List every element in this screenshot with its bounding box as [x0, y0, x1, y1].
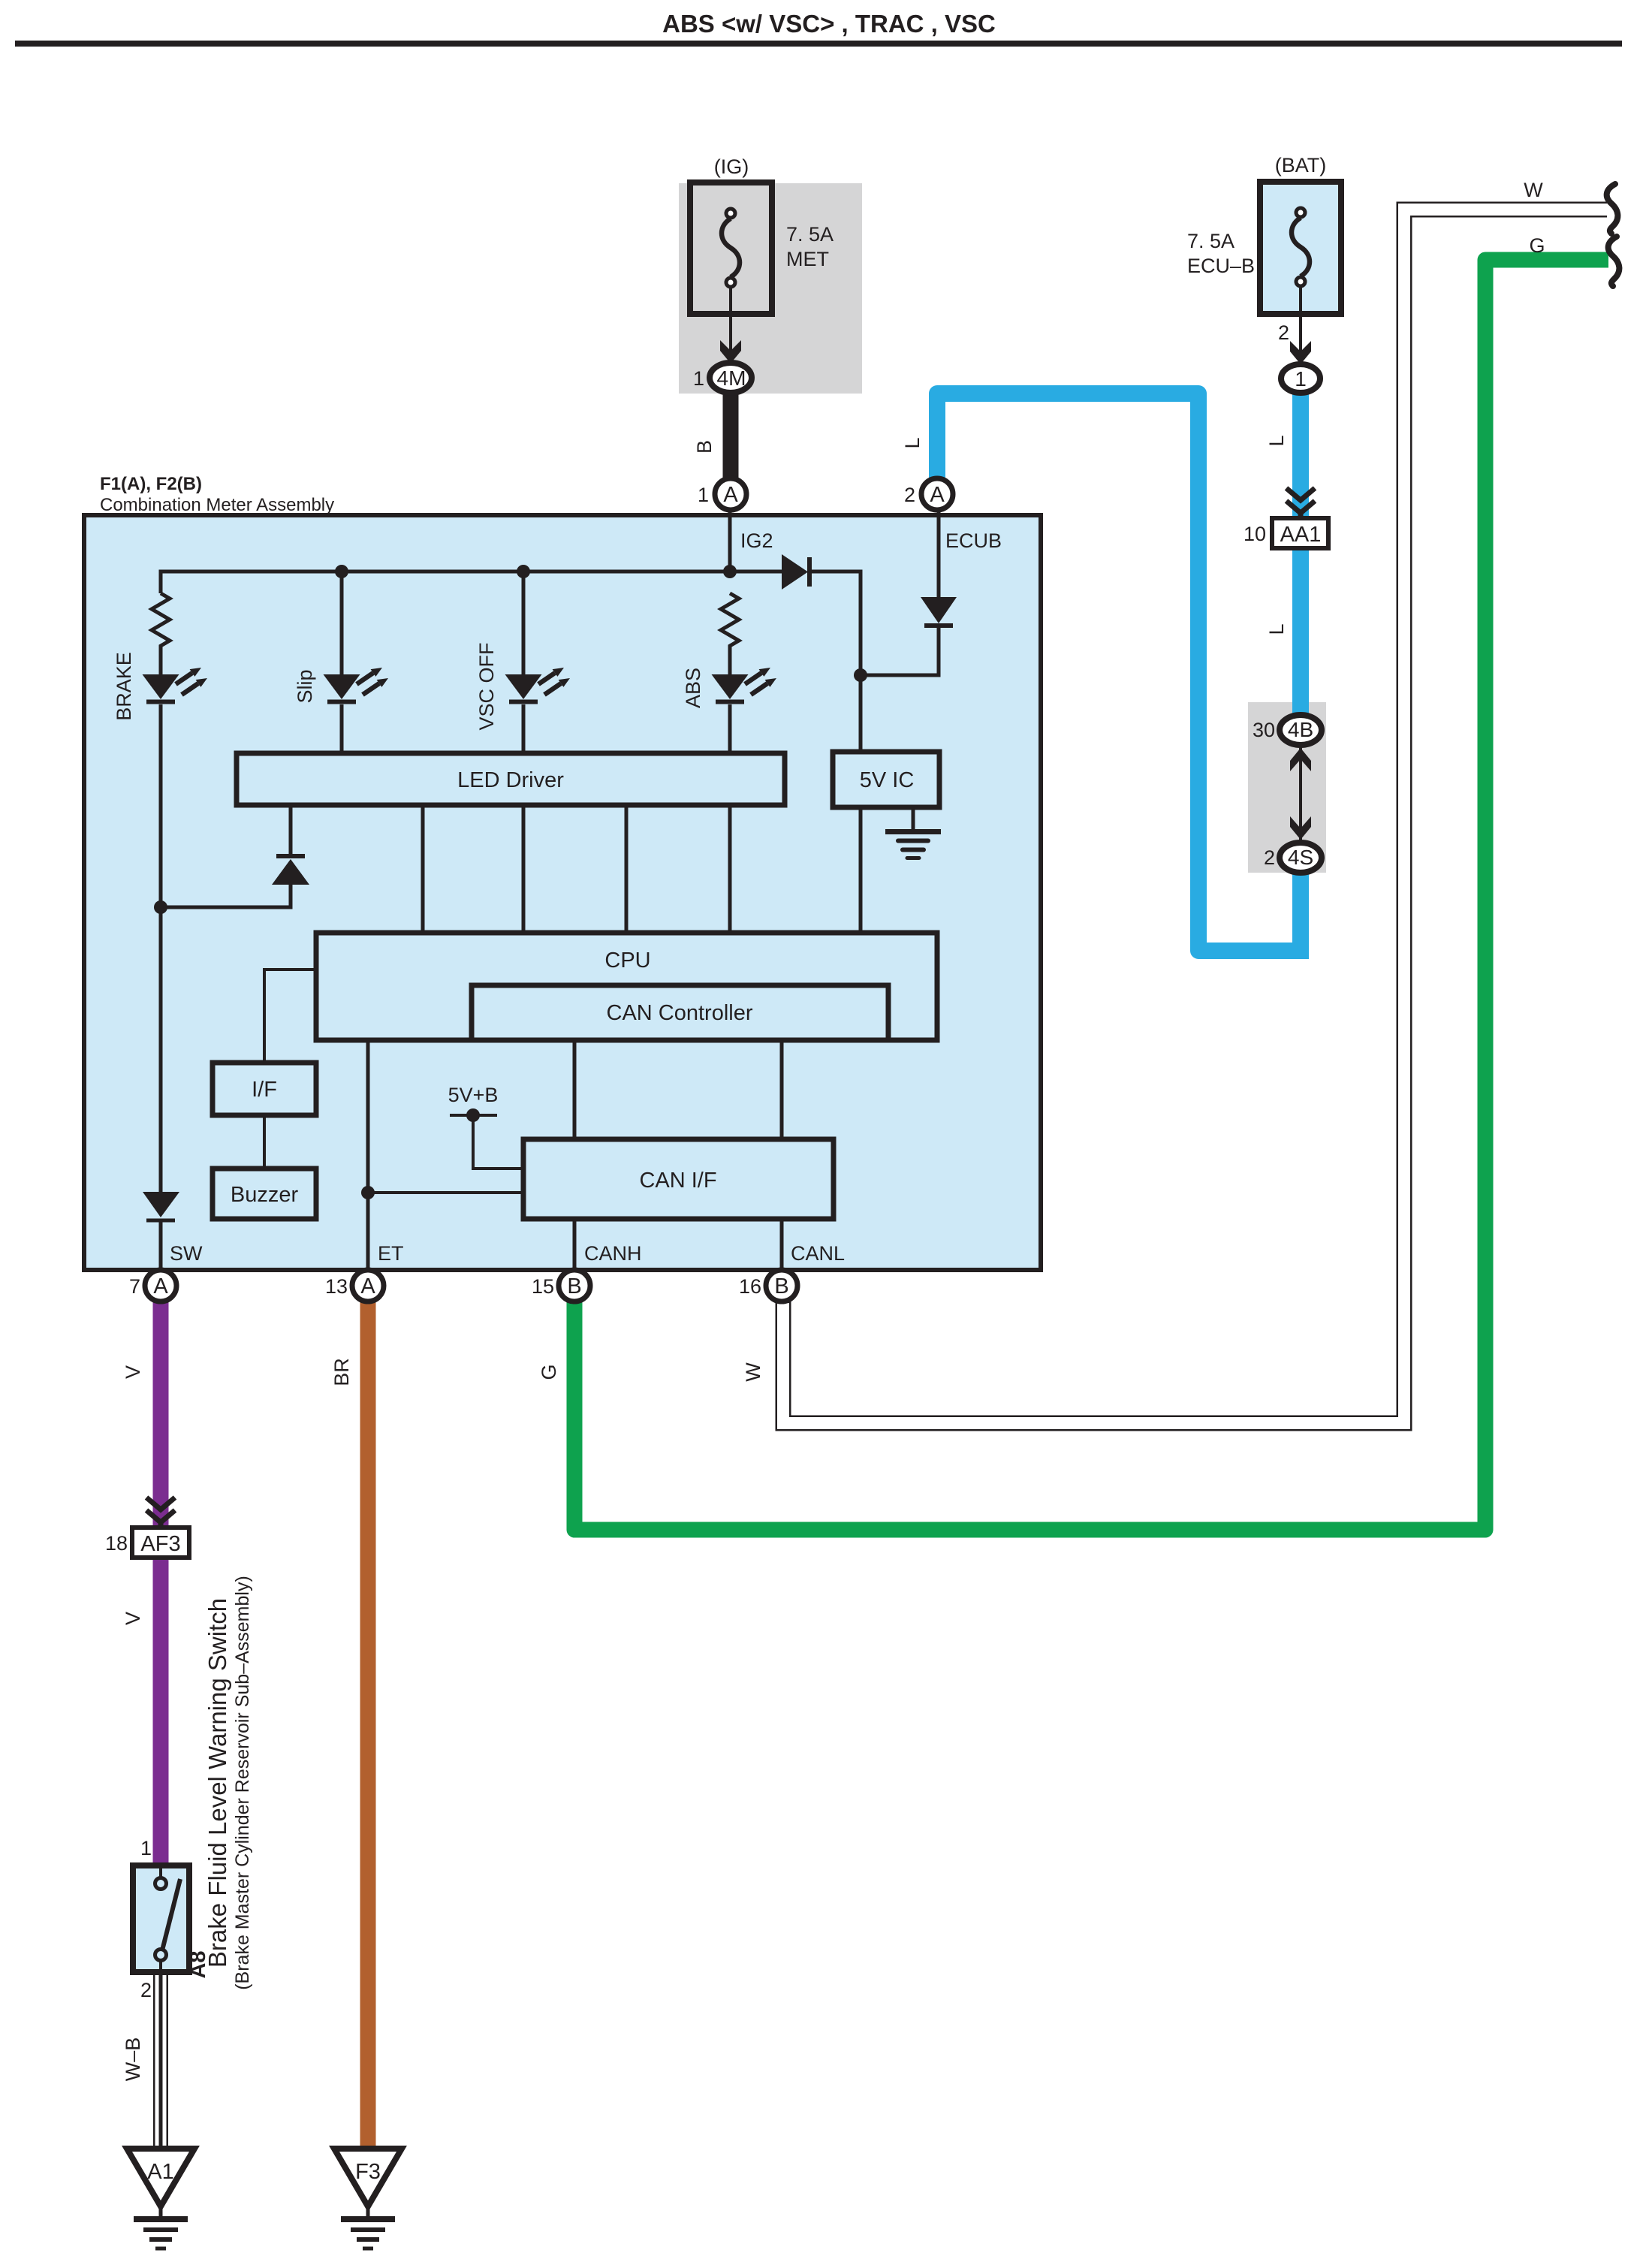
svg-text:7. 5A: 7. 5A	[1187, 230, 1234, 252]
svg-text:B: B	[693, 440, 716, 454]
svg-text:1: 1	[1295, 367, 1307, 391]
svg-text:G: G	[1529, 234, 1545, 257]
svg-text:SW: SW	[170, 1242, 203, 1265]
svg-text:L: L	[1265, 435, 1288, 446]
svg-text:F3: F3	[355, 2160, 381, 2184]
svg-text:IG2: IG2	[740, 529, 773, 552]
svg-text:V: V	[122, 1365, 144, 1379]
svg-text:1: 1	[698, 484, 709, 506]
svg-text:(IG): (IG)	[714, 155, 749, 178]
svg-text:CANL: CANL	[791, 1242, 845, 1265]
svg-text:18: 18	[105, 1532, 128, 1555]
svg-text:5V+B: 5V+B	[448, 1084, 499, 1106]
svg-text:ET: ET	[378, 1242, 404, 1265]
svg-text:V: V	[122, 1612, 144, 1625]
svg-text:Slip: Slip	[294, 669, 316, 703]
svg-text:5V IC: 5V IC	[860, 768, 915, 792]
svg-text:ABS <w/ VSC> , TRAC , VSC: ABS <w/ VSC> , TRAC , VSC	[662, 10, 996, 38]
svg-text:I/F: I/F	[252, 1078, 277, 1102]
svg-text:2: 2	[140, 1979, 152, 2001]
svg-text:1: 1	[693, 367, 704, 390]
svg-text:2: 2	[904, 484, 915, 506]
svg-text:ECUB: ECUB	[945, 529, 1002, 552]
svg-text:10: 10	[1244, 523, 1266, 545]
svg-text:2: 2	[1264, 846, 1275, 869]
svg-text:15: 15	[532, 1275, 554, 1298]
svg-text:W: W	[1524, 179, 1543, 201]
svg-text:A: A	[930, 483, 945, 507]
svg-text:A: A	[723, 483, 738, 507]
svg-text:Brake Fluid Level Warning Swit: Brake Fluid Level Warning Switch	[203, 1598, 231, 1968]
svg-text:G: G	[538, 1364, 560, 1380]
svg-text:B: B	[567, 1274, 581, 1298]
svg-text:Combination Meter Assembly: Combination Meter Assembly	[100, 495, 334, 515]
svg-text:A: A	[360, 1274, 375, 1298]
svg-text:4B: 4B	[1288, 718, 1313, 741]
svg-text:W–B: W–B	[122, 2037, 144, 2082]
svg-text:2: 2	[1278, 321, 1289, 344]
svg-text:(Brake Master Cylinder Reservo: (Brake Master Cylinder Reservoir Sub–Ass…	[232, 1576, 253, 1990]
svg-text:4S: 4S	[1288, 846, 1313, 869]
svg-text:4M: 4M	[717, 366, 746, 390]
svg-text:7. 5A: 7. 5A	[786, 223, 834, 246]
svg-text:Buzzer: Buzzer	[231, 1183, 299, 1207]
svg-text:AF3: AF3	[140, 1532, 180, 1556]
svg-text:B: B	[774, 1274, 788, 1298]
svg-text:BRAKE: BRAKE	[113, 652, 135, 721]
svg-text:CPU: CPU	[604, 949, 650, 973]
svg-text:7: 7	[129, 1275, 140, 1298]
svg-text:L: L	[901, 437, 924, 448]
svg-text:13: 13	[325, 1275, 348, 1298]
svg-text:VSC OFF: VSC OFF	[475, 642, 498, 730]
svg-text:CANH: CANH	[584, 1242, 642, 1265]
svg-text:30: 30	[1253, 719, 1275, 741]
svg-text:MET: MET	[786, 248, 829, 270]
svg-text:ABS: ABS	[682, 668, 704, 708]
svg-text:BR: BR	[330, 1358, 353, 1386]
svg-text:A1: A1	[147, 2160, 173, 2184]
svg-text:16: 16	[739, 1275, 761, 1298]
svg-text:(BAT): (BAT)	[1275, 154, 1327, 176]
svg-text:L: L	[1265, 623, 1288, 635]
svg-text:ECU–B: ECU–B	[1187, 255, 1255, 277]
svg-text:LED Driver: LED Driver	[457, 768, 564, 792]
svg-text:CAN I/F: CAN I/F	[639, 1169, 716, 1193]
svg-text:CAN Controller: CAN Controller	[607, 1001, 753, 1025]
svg-text:W: W	[742, 1362, 764, 1382]
svg-text:1: 1	[140, 1837, 152, 1859]
svg-text:F1(A), F2(B): F1(A), F2(B)	[100, 474, 202, 494]
svg-text:A: A	[153, 1274, 168, 1298]
svg-text:AA1: AA1	[1280, 523, 1322, 547]
